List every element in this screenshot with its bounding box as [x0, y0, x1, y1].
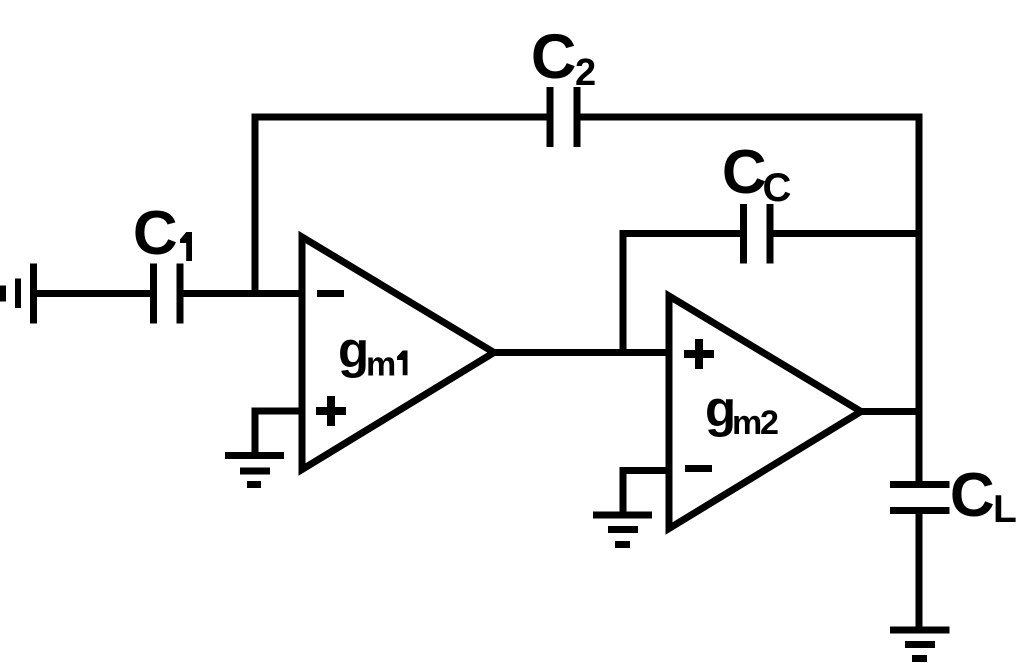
wire gm2 output to right rail: [858, 408, 923, 415]
wire gm1 plus to ground: [255, 411, 306, 452]
wire input to C1: [34, 290, 151, 297]
wire CC to right rail: [774, 230, 923, 237]
gm1 plus input symbol: [316, 396, 346, 426]
label gm1: [338, 322, 408, 384]
svg-text:L: L: [993, 488, 1017, 531]
wire C1 to gm1 inverting input: [184, 290, 307, 297]
capacitor C1: [154, 264, 181, 324]
gm2 plus input symbol: [684, 339, 714, 369]
op-amp gm2: [669, 296, 861, 529]
ground (gm1 plus input): [225, 456, 284, 485]
label C2: [531, 22, 596, 94]
op-amp gm1: [302, 237, 494, 470]
wire gm2 minus to ground: [623, 471, 673, 513]
svg-text:2: 2: [575, 52, 596, 94]
svg-text:C: C: [133, 199, 178, 268]
svg-text:C: C: [722, 138, 767, 207]
ground (gm2 minus input): [593, 515, 652, 545]
svg-text:m: m: [732, 404, 762, 442]
wire CC left branch: [623, 234, 740, 353]
label CL: [950, 461, 1017, 531]
svg-text:m: m: [366, 346, 396, 384]
capacitor CL: [890, 485, 950, 511]
svg-text:2: 2: [760, 404, 779, 442]
svg-text:g: g: [338, 322, 369, 379]
ground (input source): [3, 264, 34, 324]
wire CL to ground: [916, 511, 923, 631]
gm2 minus input symbol: [685, 465, 712, 472]
svg-text:C: C: [531, 22, 577, 92]
label CC: [722, 138, 791, 210]
svg-text:C: C: [763, 166, 792, 210]
gm1 minus input symbol: [317, 290, 344, 297]
capacitor CC: [744, 204, 771, 264]
wire node to C2 top rail: [255, 117, 547, 297]
wire gm1 output to gm2 plus input: [490, 349, 673, 356]
label gm2: [705, 381, 779, 443]
ground (output load): [890, 630, 950, 659]
capacitor C2: [550, 87, 577, 147]
label C1: [133, 199, 192, 268]
svg-text:C: C: [950, 461, 995, 530]
wire C2 to right rail down to CL: [581, 117, 920, 485]
